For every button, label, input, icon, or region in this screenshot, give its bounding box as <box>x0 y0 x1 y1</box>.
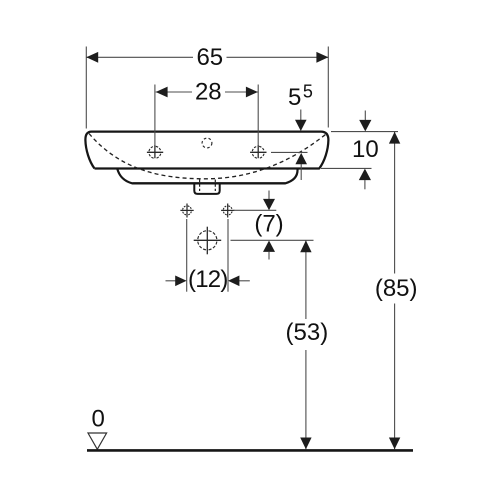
basin lower ledge <box>117 169 297 184</box>
svg-text:0: 0 <box>92 406 105 433</box>
dim 10 bottom ref line <box>321 167 372 169</box>
dim (53) down arrow <box>300 438 311 450</box>
svg-text:(85): (85) <box>375 275 418 302</box>
ledge bottom line <box>133 182 286 184</box>
svg-text:(7): (7) <box>254 211 283 238</box>
dim 28 line <box>156 91 258 93</box>
dim 28 arrow left <box>156 87 168 98</box>
dim 5.5 down arrow <box>300 110 302 122</box>
dim (12) extension right <box>227 219 229 292</box>
basin rim outline <box>85 132 328 169</box>
drain trap hidden edges <box>199 180 201 192</box>
dim (53) line <box>305 241 307 450</box>
dim (85) down arrow <box>389 438 400 450</box>
tap hole right <box>250 145 266 158</box>
fixing hole left <box>180 204 193 218</box>
svg-text:10: 10 <box>352 136 379 163</box>
dim (12) left tail+arrow <box>166 280 177 282</box>
dim 5.5 ref line <box>271 151 308 153</box>
bowl hidden curve <box>89 134 326 179</box>
dim 65 line <box>86 56 328 58</box>
dim 65 arrow left <box>86 52 98 63</box>
dim 5.5 up arrow <box>295 153 307 164</box>
dim (85) line <box>394 132 396 449</box>
dim (85) up arrow <box>389 132 400 144</box>
floor line <box>87 449 413 452</box>
dim 10 down arrow <box>364 111 366 122</box>
dim (7) bottom ref line <box>231 239 314 241</box>
dim (7) down arrow <box>268 191 270 201</box>
tap hole left <box>147 145 163 158</box>
dim 28 arrow right <box>246 87 258 98</box>
datum triangle <box>88 433 107 449</box>
dim (53) up arrow <box>300 240 311 252</box>
waste outlet mark <box>194 227 222 255</box>
dim (12) right tail+arrow <box>239 280 250 282</box>
dim 28 extension left <box>154 85 156 147</box>
svg-text:(53): (53) <box>286 319 329 346</box>
dim (7) up arrow <box>263 241 275 252</box>
svg-text:28: 28 <box>195 79 222 106</box>
dim (7) top ref line <box>234 209 277 211</box>
svg-text:(12): (12) <box>188 266 228 293</box>
dim 65 extension left <box>85 47 87 129</box>
overflow hole <box>202 138 212 148</box>
dim 10 up arrow <box>359 169 371 181</box>
drain trap box <box>194 184 219 194</box>
dim 65 arrow right <box>316 52 328 63</box>
dim 65 extension right <box>327 47 329 128</box>
dim (12) extension left <box>186 219 188 292</box>
dim 10 top ref line <box>331 131 398 133</box>
fixing hole right <box>221 204 234 218</box>
svg-text:65: 65 <box>196 44 223 71</box>
dim 28 extension right <box>257 85 259 147</box>
